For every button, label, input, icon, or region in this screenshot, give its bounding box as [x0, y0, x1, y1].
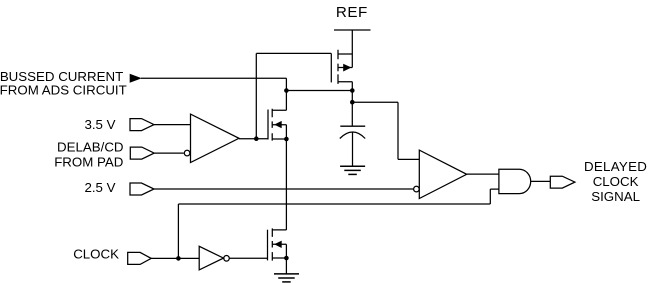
- junction dot M1 drain node: [350, 88, 355, 93]
- wire 2.5V to A2 bubble: [154, 188, 413, 190]
- svg-text:DELAB/CD: DELAB/CD: [57, 140, 124, 155]
- wire CLOCK delayed path to AND gate: [178, 189, 499, 204]
- svg-text:CLOCK: CLOCK: [73, 247, 119, 262]
- input port CLOCK: [128, 252, 152, 264]
- junction dot gate net: [254, 136, 259, 141]
- svg-text:CLOCK: CLOCK: [593, 174, 639, 189]
- node 3.5 V label: [84, 117, 115, 132]
- transistor M3 (NMOS clock switch): [268, 228, 287, 260]
- input arrow BUSSED CURRENT: [130, 74, 142, 83]
- wire BUSSED down to M2 drain: [285, 78, 287, 110]
- input port 3.5 V: [130, 119, 154, 131]
- wire gate net vertical (A1 output to M1 gate): [255, 53, 257, 138]
- junction dot cap node: [350, 100, 355, 105]
- input port DELAB/CD: [130, 147, 154, 159]
- wire M1 gate lead: [256, 52, 331, 54]
- wire BUSSED CURRENT horizontal: [141, 77, 286, 79]
- node REF label: [336, 4, 368, 21]
- ground G2 (M3 source): [274, 258, 299, 282]
- svg-text:FROM ADS CIRCUIT: FROM ADS CIRCUIT: [0, 83, 127, 98]
- svg-text:2.5 V: 2.5 V: [84, 180, 115, 195]
- transistor M2 (NMOS mirror): [268, 109, 286, 141]
- wire AND output: [531, 180, 551, 182]
- wire inverter output to M3 gate: [229, 257, 267, 259]
- svg-text:SIGNAL: SIGNAL: [591, 189, 640, 204]
- node 2.5 V label: [84, 180, 115, 195]
- ground G1 (capacitor): [340, 166, 365, 174]
- output port DELAYED CLOCK SIGNAL: [550, 176, 575, 188]
- junction dot M3 source: [284, 256, 289, 261]
- svg-text:FROM PAD: FROM PAD: [54, 155, 123, 170]
- wire cap node to comparator A2 input: [352, 102, 419, 159]
- wire REF rail to M1 source: [351, 30, 353, 68]
- svg-text:REF: REF: [336, 4, 368, 21]
- transistor M1 (PMOS at REF): [331, 50, 352, 91]
- wire M1 drain node down to cap: [351, 91, 353, 127]
- wire M2 source to M3 drain: [285, 139, 287, 230]
- junction dot M2 source: [284, 137, 289, 142]
- junction dot M2 drain node: [284, 88, 289, 93]
- comparator A2: [414, 150, 467, 198]
- wire CLOCK to inverter: [151, 257, 199, 259]
- inverter INV1: [199, 246, 229, 270]
- svg-text:DELAYED: DELAYED: [584, 159, 647, 174]
- node DELAB/CD FROM PAD label: [54, 140, 123, 170]
- node CLOCK label: [73, 247, 119, 262]
- svg-text:3.5 V: 3.5 V: [84, 117, 115, 132]
- wire M2 drain node to M1 drain node: [286, 90, 352, 92]
- wire A1 output to M2 gate: [239, 138, 268, 140]
- node DELAYED CLOCK SIGNAL label: [584, 159, 647, 204]
- junction dot CLOCK branch: [176, 256, 181, 261]
- wire A2 output to AND gate: [467, 173, 499, 175]
- node BUSSED CURRENT label: [0, 69, 127, 98]
- capacitor C1: [340, 126, 365, 166]
- wire 3.5V to A1: [154, 124, 191, 126]
- wire DELAB to A1 bubble: [154, 152, 184, 154]
- power rail REF: [334, 29, 371, 31]
- input port 2.5 V: [130, 183, 154, 195]
- AND gate U1: [499, 169, 531, 193]
- wire CLOCK branch up: [177, 204, 179, 258]
- op-amp A1: [184, 114, 239, 162]
